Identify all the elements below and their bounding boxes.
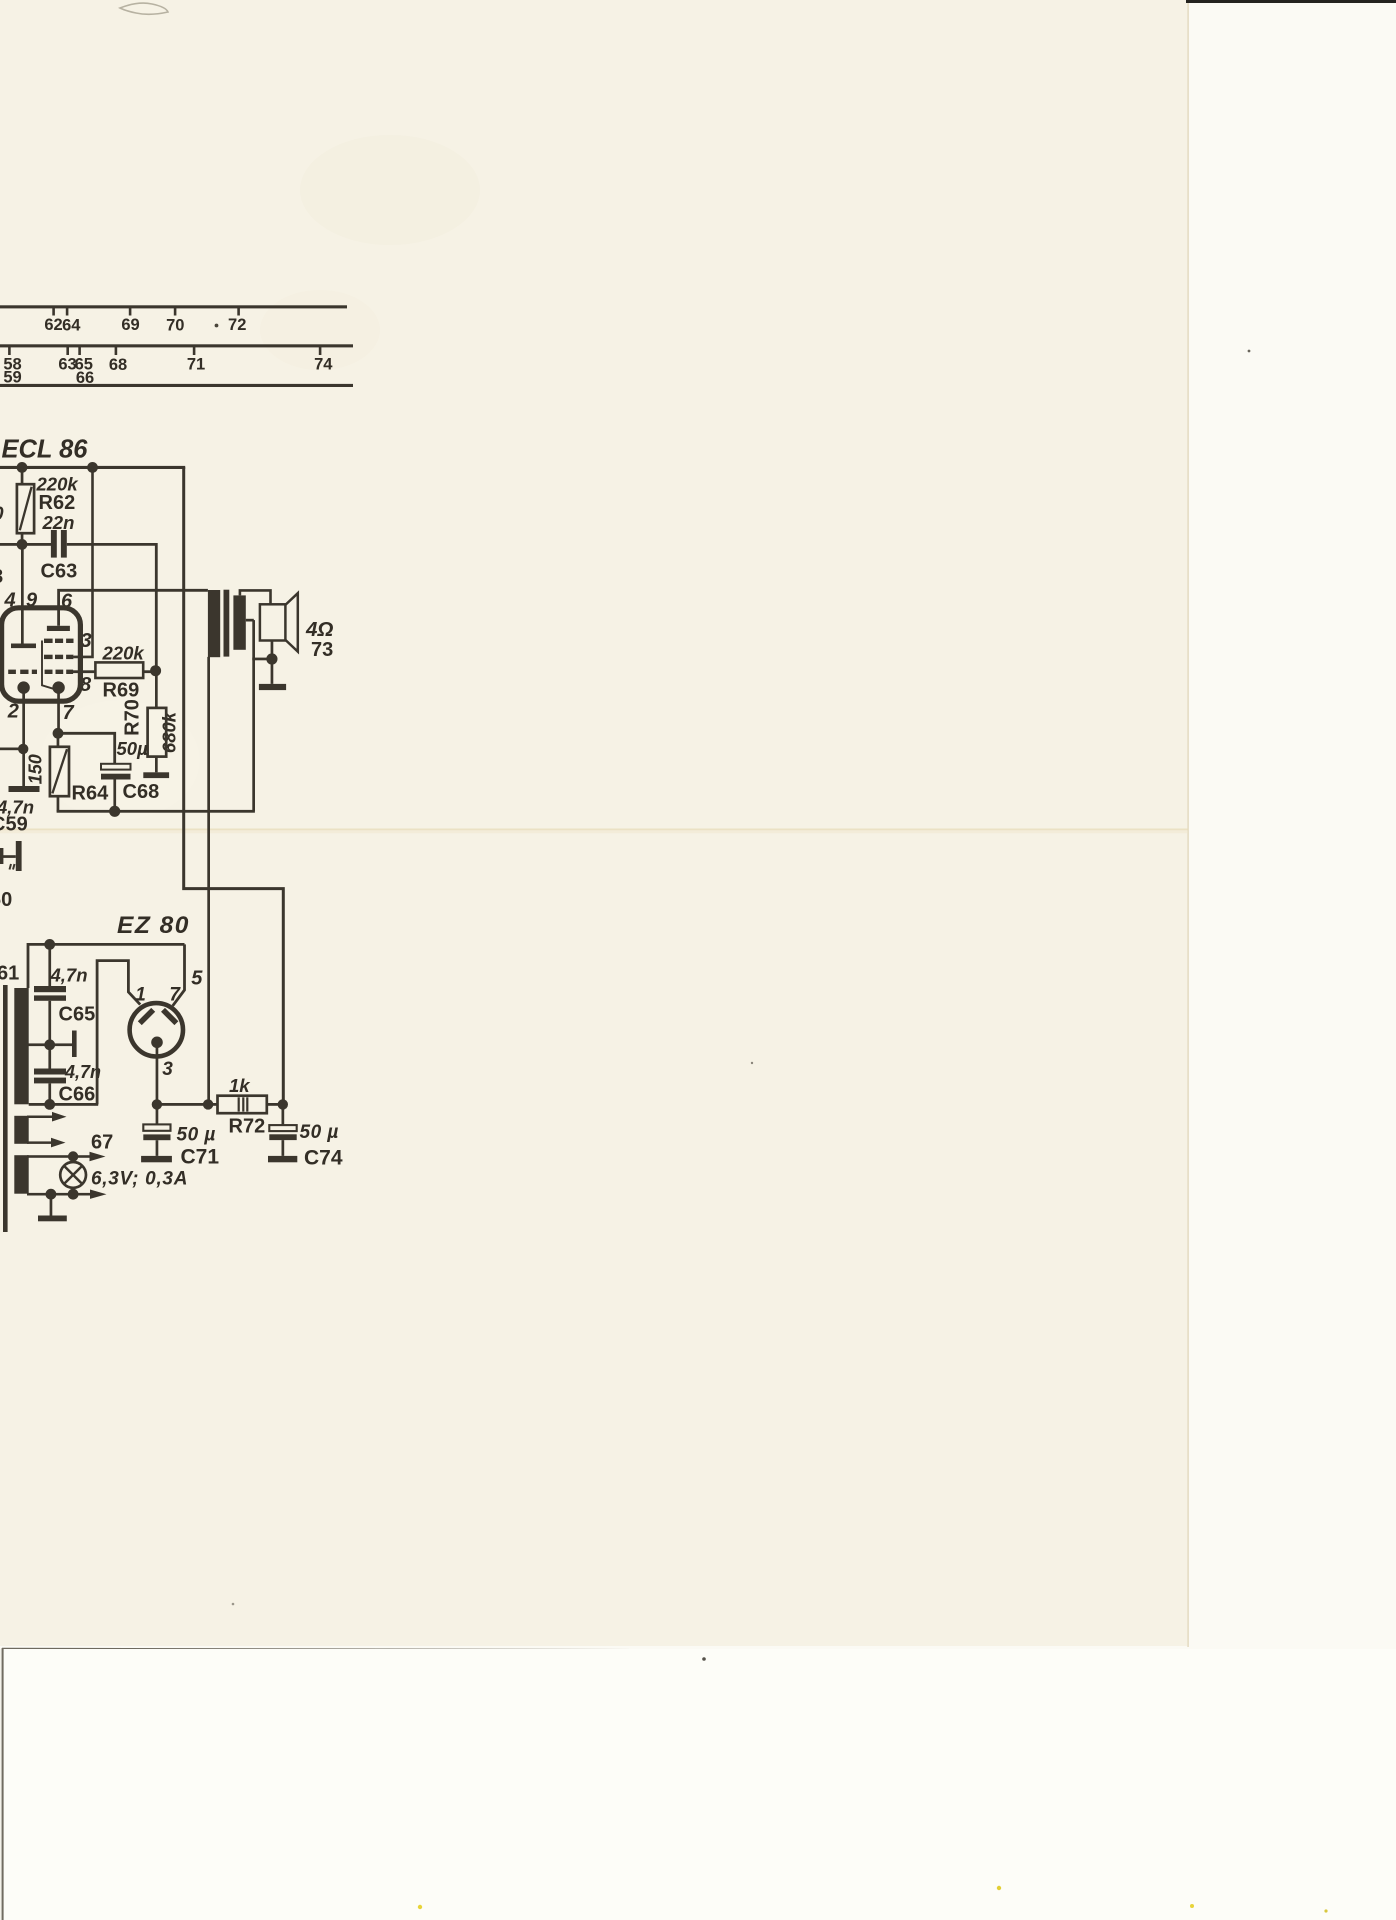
node: R62 / C63 / grid junction [17,539,28,550]
wire lamp top + arrow 67 [27,1155,90,1158]
svg-text:73: 73 [311,639,333,661]
svg-text:R69: R69 [103,680,140,702]
resistor R70 [148,708,167,757]
svg-text:72: 72 [228,316,246,334]
svg-text:R70: R70 [122,699,144,736]
svg-text:R62: R62 [39,492,76,514]
wire ground drop [50,1194,53,1215]
svg-text:50µ: 50µ [117,738,149,759]
svg-text:69: 69 [121,316,139,334]
svg-text:62: 62 [44,316,62,334]
wire R72 right lead [267,1103,284,1106]
dial scale line 3 [0,384,353,387]
power transformer HT winding [14,988,28,1104]
svg-text:R64: R64 [72,783,110,805]
wire cathode return bus [57,810,255,813]
dial ticks on line 2 [8,347,321,355]
wire C71 top lead [156,1104,159,1124]
dial ticks on line 1 [52,308,240,316]
heater winding b (lamp) [14,1155,28,1194]
wire speaker ground lead [271,641,274,684]
wire pin 7 cathode down [57,693,60,734]
ground (triode cathode) [9,786,40,792]
svg-text:680k: 680k [159,710,180,753]
node: R69 / R70 / C63-line junction [150,665,161,676]
triode grid bar [11,644,36,649]
wire R70 top lead [155,671,158,708]
faint stains [300,135,480,245]
tube EZ80 envelope [130,1003,183,1056]
control grid g1 dashes row (pin 8) [8,670,73,674]
fold crease across page [0,829,1188,831]
wire C74 bottom lead [282,1140,285,1156]
black scanner strip top right [1186,0,1396,3]
svg-text:R72: R72 [229,1116,266,1138]
wire screen grid line (rail to tube pin 3) [74,467,93,657]
svg-text:150: 150 [26,754,46,784]
node: ground drop junction [46,1189,57,1200]
wire primary bottom lead down to EZ80 B+ node [207,657,210,1106]
wire screen exit to pin 3 [74,656,93,658]
tear mark top left [120,3,168,14]
paper specks [702,1657,706,1661]
wire C63 right lead down to R69/R70 node [67,544,157,670]
wire anode lead (pin 6) up and to output transformer [59,590,208,626]
wire C66 bottom lead [48,1083,51,1104]
wire B+ vertical down to EZ80 section [184,467,284,1104]
speck dot on dial [215,324,219,328]
node: pin 2 / stub junction [18,744,28,754]
svg-text:68: 68 [109,356,127,374]
svg-text:22n: 22n [42,512,75,533]
svg-text:C63: C63 [41,561,78,583]
wire stub from left edge to pin 2 node [0,748,23,751]
node: pin 7 / R64 / C68 junction [53,728,64,739]
wire R69 input lead from grid row [73,670,96,673]
capacitor C65 [34,986,66,992]
pilot lamp 6,3V 0,3A [60,1162,86,1188]
tap plate bar [72,1031,77,1058]
svg-text:67: 67 [91,1132,113,1154]
svg-text:C68: C68 [123,781,160,803]
svg-text:4,7n: 4,7n [64,1062,101,1082]
ground (heater circuit) [38,1216,67,1222]
svg-text:C66: C66 [59,1084,96,1106]
output transformer secondary winding [233,595,245,649]
node: rail / screen line junction [87,462,98,473]
node: pin 3 / C71 junction [152,1099,162,1109]
triode cathode dot (pin 2) [17,681,29,693]
capacitor C68 (electrolytic) [101,764,131,770]
ground (C71) [141,1156,172,1162]
wire tap from HT winding [27,1043,72,1046]
output transformer primary winding [208,590,220,657]
pentode screen g2 dashes row (pin 3) [44,655,74,659]
capacitor C63 [51,530,57,558]
svg-text:71: 71 [187,356,205,374]
dial numbers row 2 [3,356,333,387]
wire bottom bus (winding to pin1 riser) [29,1103,99,1106]
svg-text:2: 2 [7,701,19,723]
node: rail / R62 junction [17,462,28,473]
svg-text:220k: 220k [102,643,146,664]
heater winding a [14,1116,28,1144]
rectifier left anode plate [140,1010,153,1023]
paper right edge seam [1187,0,1189,1647]
wire into C63 from left edge [0,543,51,546]
wire C65-C66 mid lead [48,1001,51,1045]
output transformer core [224,590,230,657]
resistor R62 [17,484,34,533]
rectifier cathode dot [151,1037,163,1049]
B+ top rail wire [0,466,185,469]
rectifier right anode plate [163,1010,176,1023]
node: speaker / tap junction [266,653,277,664]
fragment wire to plate [0,855,16,858]
tube ECL86 envelope [2,608,81,701]
capacitor C74 (electrolytic) [269,1125,296,1131]
wire speaker return riser [252,620,255,811]
svg-text:C74: C74 [304,1147,343,1170]
wire secondary top lead to speaker [240,590,271,604]
dial scale line 1 [0,305,347,308]
node: R72 / C74 / B+ junction [278,1099,288,1109]
svg-text:60: 60 [0,889,12,911]
heater tap arrow 1 [27,1116,53,1119]
wire R62 bottom lead [21,533,24,545]
resistor R64 [50,747,69,796]
node: C68 / bus junction [109,806,120,817]
dial numbers row 1 [44,316,246,335]
heater tap arrow 2 [27,1141,52,1144]
wire pin7 node to C68 [58,733,115,764]
dial scale line 2 [0,344,353,347]
svg-text:7: 7 [62,702,74,724]
svg-text:C59: C59 [0,814,28,836]
node: HT / C65 junction [44,939,55,950]
wire C66 top lead [48,1045,51,1069]
node: lamp bottom junction [68,1189,79,1200]
wire pin 7 lead from above [173,944,185,1005]
node: lamp top junction [68,1151,78,1161]
wire C71 bottom lead [156,1140,159,1156]
svg-text:1: 1 [135,985,146,1006]
wire R62 top lead [21,467,24,485]
svg-text:4,7n: 4,7n [50,965,88,986]
svg-text:74: 74 [314,356,333,374]
svg-text:5: 5 [191,968,203,990]
wire pin 1 routing rectangle [97,961,140,1105]
wire cathode lead (pin 3) down [156,1042,159,1104]
svg-text:ECL 86: ECL 86 [2,436,89,464]
ground (C74) [268,1156,297,1162]
wire lamp bottom [72,1188,75,1194]
node: primary lead / R72 left junction [203,1099,213,1109]
fragment quote mark [10,864,15,870]
svg-text:8: 8 [0,566,3,588]
wire C74 top lead [282,1104,285,1125]
power transformer core line [3,985,8,1232]
svg-text:6,3V; 0,3A: 6,3V; 0,3A [91,1169,188,1190]
node: winding tap / C65 / C66 junction [44,1039,55,1050]
pentode cathode dot (pin 7) [52,681,64,693]
svg-text:64: 64 [62,317,81,335]
capacitor C71 (electrolytic) [143,1124,170,1130]
pentode anode bar [47,626,70,631]
wire bottom heater bus + arrow [27,1193,91,1196]
svg-text:EZ 80: EZ 80 [117,912,190,939]
wire secondary tap lead [246,619,254,622]
speaker 73 [260,604,286,640]
wire HT feed to rectifier anodes [28,944,185,988]
wire triode grid lead (pin 9) [21,544,24,644]
wire pin 2 cathode down [22,693,25,786]
ground (speaker) [259,684,286,690]
wire pin3 node to R72 [157,1103,218,1106]
svg-text:1k: 1k [229,1075,251,1096]
svg-text:0: 0 [0,504,4,525]
node: C66 / bus junction [44,1099,55,1110]
wire tap to speaker-ground node [252,658,272,661]
pentode grid g3 dashes row [44,639,74,643]
resistor R72 [218,1096,267,1114]
wire C65 top lead [48,944,51,986]
paper bottom edge [2,1648,1189,1652]
internal g3-cathode strap [42,641,54,689]
svg-text:59: 59 [3,369,21,387]
ground (R70) [143,772,169,778]
fragment: capacitor plate bar near fold (left edge) [16,841,22,871]
fragment: cut plate at page edge [0,848,3,864]
svg-text:50 µ: 50 µ [177,1125,216,1146]
wire R69 right lead [143,670,156,673]
capacitor C66 [34,1069,66,1075]
svg-text:50 µ: 50 µ [300,1122,339,1143]
resistor R69 [95,662,143,678]
svg-text:61: 61 [0,963,19,985]
svg-text:3: 3 [162,1059,173,1080]
svg-text:4Ω: 4Ω [305,618,333,641]
wire R70 bottom lead [155,757,158,773]
svg-text:70: 70 [166,317,184,335]
svg-text:C65: C65 [59,1004,96,1026]
svg-text:C71: C71 [181,1146,220,1169]
